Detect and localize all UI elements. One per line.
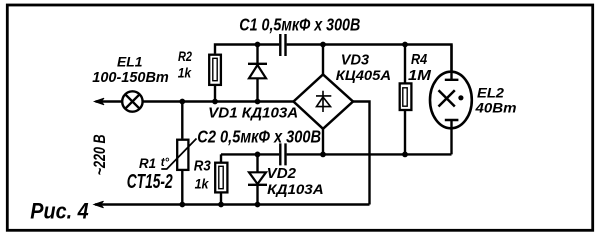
svg-text:1M: 1M bbox=[408, 67, 431, 84]
svg-text:VD3: VD3 bbox=[341, 52, 369, 68]
svg-text:КД103А: КД103А bbox=[267, 181, 324, 197]
svg-text:1k: 1k bbox=[178, 65, 193, 81]
svg-text:VD2: VD2 bbox=[267, 165, 297, 182]
svg-text:EL2: EL2 bbox=[477, 85, 504, 100]
svg-text:~220 B: ~220 B bbox=[90, 134, 109, 175]
svg-text:Puc. 4: Puc. 4 bbox=[30, 198, 88, 223]
svg-text:1k: 1k bbox=[195, 176, 210, 192]
svg-text:R2: R2 bbox=[178, 48, 192, 64]
svg-text:EL1: EL1 bbox=[117, 54, 142, 70]
svg-text:100-150Bm: 100-150Bm bbox=[92, 69, 169, 86]
svg-text:40Bm: 40Bm bbox=[474, 99, 516, 115]
svg-text:R4: R4 bbox=[411, 52, 427, 68]
svg-text:КЦ405А: КЦ405А bbox=[336, 68, 391, 84]
svg-text:t°: t° bbox=[161, 157, 170, 169]
svg-text:CT15-2: CT15-2 bbox=[127, 171, 173, 193]
svg-text:C2 0,5мкФ x 300В: C2 0,5мкФ x 300В bbox=[197, 127, 321, 147]
svg-text:VD1 КД103А: VD1 КД103А bbox=[208, 105, 298, 122]
svg-text:R3: R3 bbox=[194, 158, 212, 174]
svg-text:R1: R1 bbox=[139, 156, 156, 171]
svg-text:C1 0,5мкФ x 300В: C1 0,5мкФ x 300В bbox=[239, 15, 360, 35]
